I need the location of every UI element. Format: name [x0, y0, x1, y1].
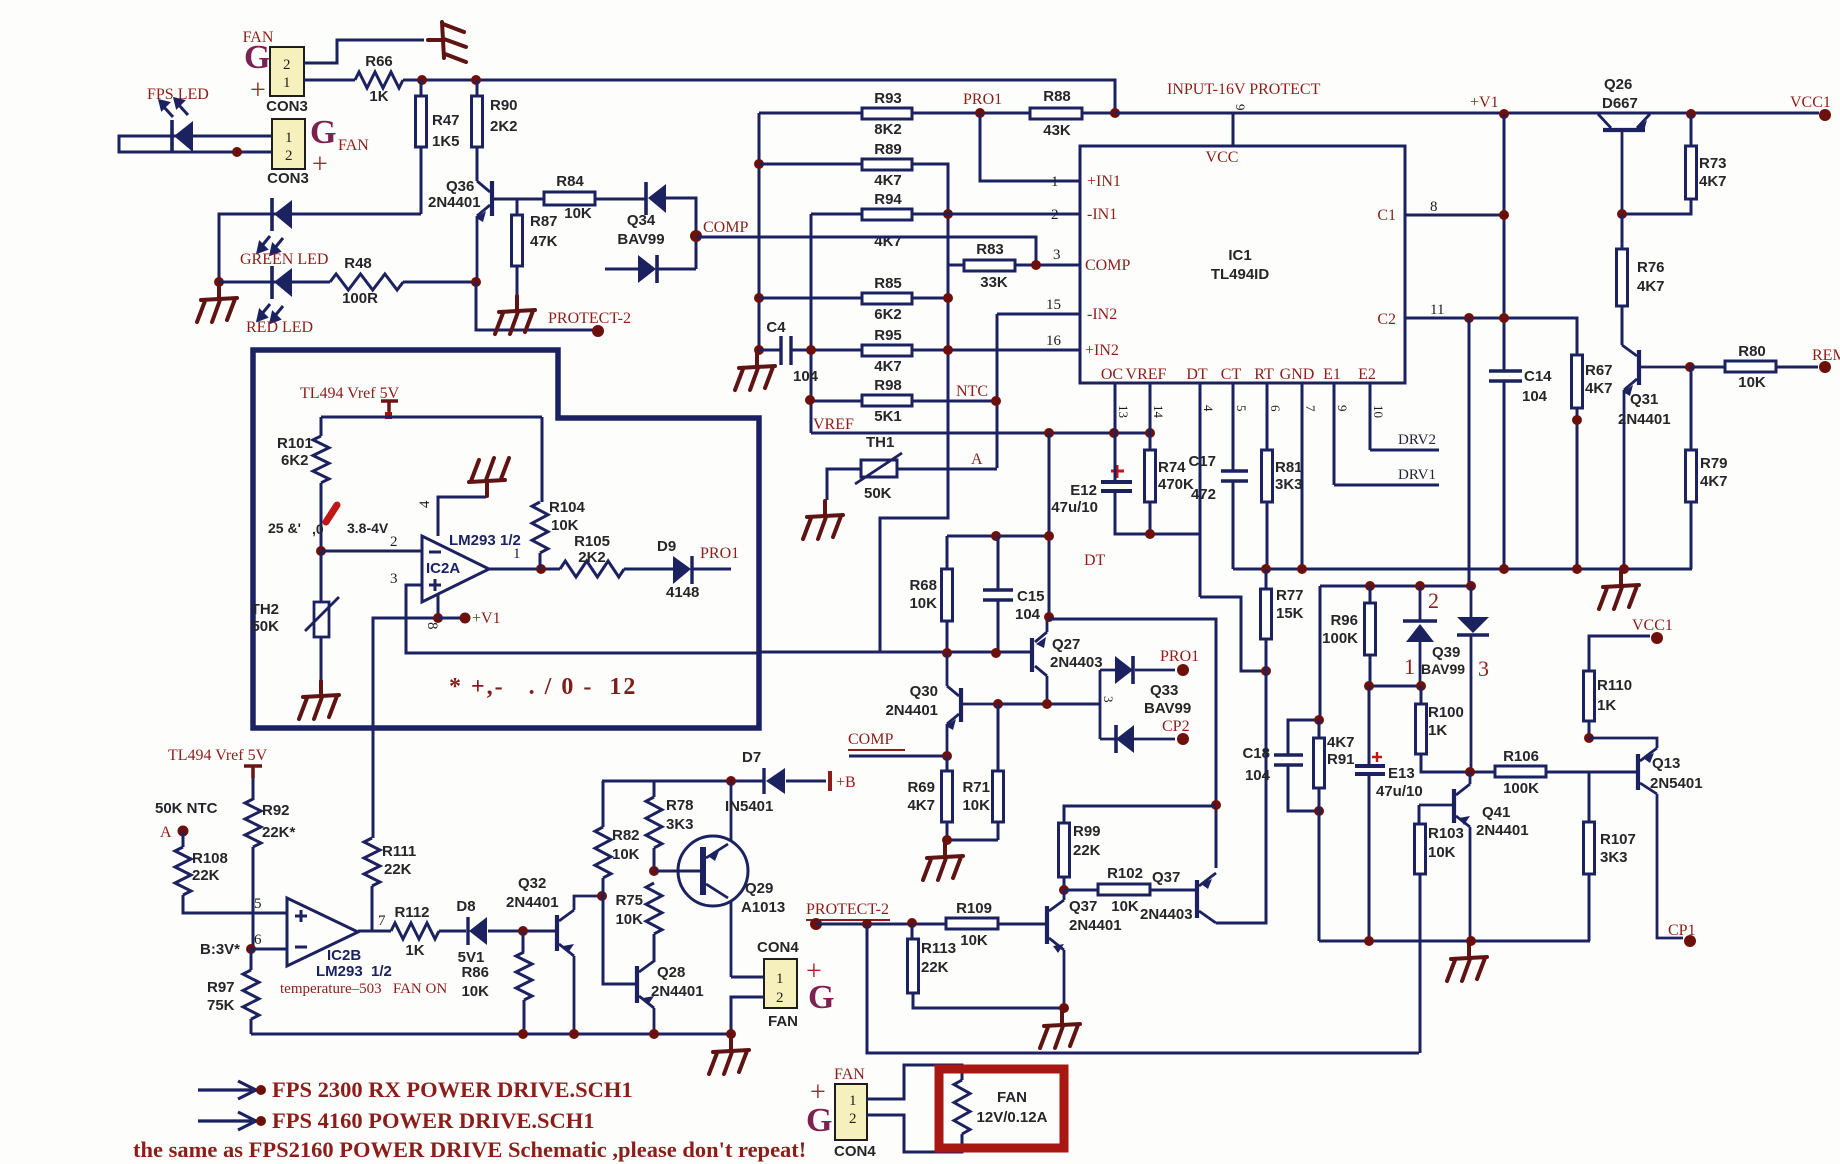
node COMP/Q30e/R69	[942, 751, 952, 761]
node rail Q32e	[569, 1029, 579, 1039]
resistor R98	[862, 395, 912, 406]
resistor R80	[1725, 361, 1776, 372]
svg-text:10K: 10K	[962, 797, 990, 814]
wire R68 leads	[946, 536, 949, 653]
wire pin VREF stub	[1149, 383, 1152, 450]
node Q31 base/R80/R79	[1685, 362, 1695, 372]
svg-text:R84: R84	[556, 173, 584, 190]
wire R74 leads	[1149, 433, 1152, 534]
svg-text:Q29: Q29	[745, 880, 773, 897]
thermistor TH2	[314, 602, 329, 637]
svg-text:100K: 100K	[1322, 630, 1358, 647]
node REM terminal	[1819, 361, 1831, 373]
resistor R47	[416, 96, 427, 147]
svg-text:E13: E13	[1388, 765, 1415, 782]
svg-text:10K: 10K	[615, 911, 643, 928]
wire VCC stub	[1232, 113, 1235, 146]
node rail652 C15	[991, 648, 1001, 658]
capacitor C17 472	[1221, 471, 1248, 481]
wire R101 leads	[320, 417, 323, 551]
wire R111 bottom	[371, 886, 374, 931]
node R100/R106/Q41c	[1465, 767, 1475, 777]
resistor R67	[1572, 355, 1583, 408]
wire C15 leads	[997, 536, 1000, 653]
node FPS LED pin2	[232, 147, 242, 157]
node rail686 E13	[1364, 681, 1374, 691]
wire pin11 line	[1405, 318, 1577, 355]
resistor R95	[862, 345, 912, 356]
transistor Q27 2N4403	[1030, 638, 1034, 672]
wire R106 to Q13 base	[1546, 771, 1636, 774]
connector CON4 (bottom)	[835, 1084, 867, 1140]
wire R112 to D8	[439, 930, 466, 933]
wire Q36 emitter to PROTECT-2	[476, 282, 596, 330]
svg-text:1K: 1K	[369, 88, 388, 105]
wire CON4 pin2	[731, 997, 764, 1034]
red pen mark	[326, 505, 337, 522]
wire D9 to PRO1	[693, 568, 731, 571]
svg-text:12V/0.12A: 12V/0.12A	[977, 1109, 1048, 1126]
wire R77 leads	[1216, 569, 1266, 923]
svg-text:R104: R104	[549, 499, 586, 516]
wire pin GND stub	[1301, 383, 1304, 569]
wire CON3 pin2 to ground	[304, 40, 424, 63]
svg-text:PROTECT-2: PROTECT-2	[548, 310, 631, 327]
transistor Q28 2N4401	[635, 966, 639, 1003]
svg-text:Q39: Q39	[1432, 644, 1460, 661]
resistor R69	[942, 771, 953, 822]
node R95 right	[943, 345, 953, 355]
resistor R92	[245, 799, 261, 847]
op-amp U2A IC2A LM293	[422, 536, 489, 602]
dual diode Q33 BAV99	[1100, 670, 1116, 739]
svg-text:A1013: A1013	[741, 899, 785, 916]
wire R113 leads	[912, 923, 1064, 1008]
svg-text:FAN: FAN	[768, 1013, 798, 1030]
svg-text:4K7: 4K7	[1700, 473, 1728, 490]
svg-text:R103: R103	[1428, 825, 1464, 842]
wire R109 to Q37 base	[998, 923, 1045, 926]
svg-text:4: 4	[417, 500, 433, 508]
wire E2 to DRV2	[1370, 449, 1439, 452]
resistor R93	[862, 108, 912, 119]
svg-text:2N4401: 2N4401	[1069, 917, 1122, 934]
resistor R99	[1059, 823, 1070, 877]
node P2 drop	[862, 919, 872, 929]
node R73 top	[1686, 109, 1696, 119]
svg-text:C17: C17	[1188, 453, 1216, 470]
node R91 bottom	[1314, 806, 1324, 816]
wire pin2 line IC2A	[321, 550, 422, 553]
connector CON4 (upper)	[764, 959, 797, 1008]
svg-text:R91: R91	[1327, 751, 1355, 768]
svg-text:Q30: Q30	[910, 683, 938, 700]
wire R110 top to VCC1	[1589, 636, 1650, 671]
svg-text:3: 3	[1478, 656, 1489, 681]
svg-text:DT: DT	[1186, 366, 1208, 383]
wire R79 leads	[1690, 367, 1693, 569]
svg-text:50K NTC: 50K NTC	[155, 800, 218, 817]
svg-text:10K: 10K	[909, 595, 937, 612]
svg-text:DRV1: DRV1	[1398, 467, 1436, 483]
svg-text:FPS 2300 RX POWER DRIVE.SCH1: FPS 2300 RX POWER DRIVE.SCH1	[272, 1077, 633, 1102]
wire R80 line	[1690, 366, 1818, 369]
diode Q34 lower (BAV99)	[638, 255, 656, 283]
svg-text:PRO1: PRO1	[963, 91, 1002, 108]
svg-text:4K7: 4K7	[1327, 734, 1355, 751]
svg-text:104: 104	[793, 368, 819, 385]
wire x1469 down to Q39 rail	[1468, 318, 1471, 586]
node R99/Q37/R102	[1059, 885, 1069, 895]
wire R87 leads	[516, 199, 519, 296]
wire bottom rail 1034	[251, 1033, 731, 1036]
node pin11/x1469	[1464, 313, 1474, 323]
svg-text:IN5401: IN5401	[725, 798, 773, 815]
resistor R71	[993, 771, 1004, 822]
resistor R81	[1262, 450, 1273, 502]
svg-text:* +,- . / 0 - 12: * +,- . / 0 - 12	[449, 674, 637, 700]
svg-text:RED LED: RED LED	[246, 319, 313, 336]
resistor R101	[313, 436, 329, 483]
wire FPS LED loop	[119, 136, 274, 152]
wire rail586	[1320, 586, 1471, 720]
svg-text:Q37: Q37	[1069, 898, 1097, 915]
svg-text:Q32: Q32	[518, 875, 546, 892]
ground (LED)	[197, 284, 237, 322]
wire Q34 lower cathode	[658, 268, 696, 271]
wire ladder chain down-jog	[880, 469, 948, 653]
svg-text:LM293 1/2: LM293 1/2	[316, 963, 392, 980]
node LED ground	[214, 277, 224, 287]
svg-text:FPS 4160 POWER DRIVE.SCH1: FPS 4160 POWER DRIVE.SCH1	[272, 1108, 595, 1133]
wire left ladder vertical	[758, 113, 761, 350]
node PROTECT-2 terminal	[592, 325, 604, 337]
node rail686 R100	[1416, 681, 1426, 691]
wire R98 line	[810, 400, 996, 403]
svg-text:CP2: CP2	[1162, 718, 1190, 735]
svg-text:R80: R80	[1738, 343, 1766, 360]
svg-text:R109: R109	[956, 900, 992, 917]
wire COMP long line	[696, 237, 1036, 265]
svg-text:5: 5	[1234, 405, 1249, 412]
svg-text:CP1: CP1	[1668, 922, 1696, 939]
wire fan pin1 route	[867, 1065, 962, 1099]
wire R94 line	[811, 213, 1080, 216]
thermistor TH1	[861, 460, 897, 477]
node rail941 Q41e	[1466, 936, 1476, 946]
wire D7 to +B	[786, 780, 826, 783]
resistor R104	[532, 502, 548, 553]
node ladder R89	[754, 159, 764, 169]
svg-text:VREF: VREF	[1126, 366, 1167, 383]
svg-text:22K: 22K	[921, 959, 949, 976]
ground (pin4 IC2A)	[469, 458, 509, 496]
node ladder R85	[754, 293, 764, 303]
svg-text:4K7: 4K7	[907, 797, 935, 814]
resistor R85	[862, 293, 912, 304]
capacitor C14 104	[1489, 371, 1522, 381]
diode D8 5V1	[466, 917, 469, 945]
resistor R112	[391, 923, 439, 939]
svg-text:C14: C14	[1524, 368, 1552, 385]
resistor R91 4K7	[1314, 738, 1325, 788]
node x1216/R99	[1211, 800, 1221, 810]
diode D7 IN5401	[762, 768, 765, 794]
capacitor E13 47u/10	[1355, 766, 1385, 774]
svg-text:R112: R112	[394, 904, 429, 921]
svg-text:LM293: LM293	[449, 532, 496, 549]
svg-text:2: 2	[849, 1111, 857, 1127]
connector CON3 (top, fan)	[270, 47, 304, 96]
svg-text:C4: C4	[766, 319, 786, 336]
svg-text:472: 472	[1191, 486, 1216, 503]
wire C18 stubs	[1288, 720, 1319, 811]
svg-text:R92: R92	[262, 802, 290, 819]
svg-text:FAN: FAN	[997, 1089, 1027, 1106]
wire rail535	[947, 535, 1049, 538]
wire PROTECT-2 line	[816, 923, 946, 926]
svg-text:R86: R86	[461, 964, 489, 981]
svg-text:1: 1	[1051, 174, 1059, 190]
svg-text:R113: R113	[921, 940, 956, 957]
wire Q29 base	[654, 870, 700, 873]
node rail652 R68	[942, 648, 952, 658]
svg-text:R88: R88	[1043, 88, 1071, 105]
svg-text:GREEN LED: GREEN LED	[240, 251, 328, 268]
diode FPS LED	[170, 120, 174, 153]
wire pin8 stub	[437, 594, 440, 618]
node R110/Q13e	[1584, 733, 1594, 743]
wire pin4 to ground	[438, 497, 486, 536]
resistor R87	[512, 215, 523, 266]
svg-text:REM: REM	[1812, 347, 1840, 364]
wire R92 bottom	[252, 847, 255, 949]
svg-text:3: 3	[390, 571, 398, 587]
wire R84 to Q34	[595, 198, 645, 201]
svg-text:104: 104	[1245, 767, 1271, 784]
svg-text:+IN1: +IN1	[1087, 173, 1121, 190]
svg-text:D667: D667	[1602, 95, 1638, 112]
svg-text:G: G	[310, 114, 336, 151]
svg-text:3: 3	[1101, 696, 1116, 703]
node rail Q28e	[649, 1029, 659, 1039]
resistor R74	[1145, 450, 1156, 502]
resistor R111	[364, 838, 380, 886]
resistor R110	[1584, 671, 1595, 721]
wire R99 bottom	[1063, 877, 1066, 890]
svg-text:33K: 33K	[980, 274, 1008, 291]
wire TH1 left to ground	[827, 469, 861, 500]
wire pin DT stub	[1199, 383, 1202, 597]
svg-text:COMP: COMP	[703, 219, 748, 236]
resistor R86	[516, 952, 532, 1000]
svg-text:R93: R93	[874, 90, 902, 107]
svg-text:E1: E1	[1323, 366, 1341, 383]
svg-text:R48: R48	[344, 255, 372, 272]
svg-text:25 &': 25 &'	[268, 520, 301, 536]
svg-text:+B: +B	[836, 774, 856, 791]
node pin8 junction	[433, 613, 443, 623]
wire pin3 route	[406, 585, 758, 653]
svg-text:R90: R90	[490, 97, 518, 114]
svg-text:OC: OC	[1101, 366, 1123, 383]
svg-text:R111: R111	[382, 843, 416, 860]
svg-text:2N4401: 2N4401	[1618, 411, 1671, 428]
wire R76 leads	[1621, 214, 1624, 345]
svg-text:R107: R107	[1600, 831, 1636, 848]
transistor Q36 2N4401	[490, 181, 494, 216]
diode D9 4148	[673, 556, 691, 584]
resistor R106	[1495, 766, 1546, 777]
wire ground rail right	[1233, 502, 1692, 569]
svg-text:+: +	[312, 149, 328, 180]
node R85 right	[943, 293, 953, 303]
node rail941 E13	[1364, 936, 1374, 946]
resistor R76	[1617, 249, 1628, 306]
wire Q34 lower anode stub	[605, 268, 638, 271]
svg-text:4K7: 4K7	[1637, 278, 1665, 295]
power symbol Vref bar (bottom)	[244, 766, 262, 778]
svg-text:2N4403: 2N4403	[1140, 906, 1193, 923]
ground (rail 1034)	[709, 1036, 749, 1074]
resistor R96	[1365, 603, 1376, 655]
wire D8 to Q32	[488, 930, 555, 933]
border thick box IC2A section	[253, 350, 759, 728]
svg-text:A: A	[160, 824, 172, 841]
svg-text:6: 6	[254, 932, 262, 948]
svg-text:1: 1	[513, 546, 521, 562]
wire R75 bottom	[653, 934, 656, 962]
wire pin1 from PRO1	[980, 113, 1080, 181]
node pin2 junction	[316, 546, 326, 556]
resistor R79	[1686, 450, 1697, 502]
connector CON3 (second, fan)	[272, 119, 305, 169]
node PRO1 mid terminal	[1177, 664, 1189, 676]
svg-text:R101: R101	[277, 435, 313, 452]
diode Q39 right (BAV99)	[1457, 617, 1489, 633]
node R67 lower	[1572, 415, 1582, 425]
svg-text:R77: R77	[1276, 587, 1304, 604]
svg-text:D8: D8	[456, 898, 475, 915]
wire pin OC stub	[1114, 383, 1117, 434]
svg-text:1K: 1K	[1428, 722, 1447, 739]
wire VCC rail to VCC1	[1115, 112, 1819, 115]
svg-text:22K: 22K	[192, 867, 220, 884]
resistor R78	[646, 797, 662, 848]
svg-text:-IN1: -IN1	[1087, 206, 1117, 223]
svg-text:2N4401: 2N4401	[506, 894, 559, 911]
wire R73 leads	[1622, 114, 1691, 214]
svg-text:R95: R95	[874, 327, 902, 344]
ground (C4)	[735, 352, 775, 390]
wire IC2B output	[358, 930, 391, 933]
svg-text:8: 8	[424, 622, 440, 630]
resistor R84	[544, 192, 595, 205]
node R69 gnd	[942, 835, 952, 845]
svg-text:10: 10	[1371, 405, 1386, 418]
node rail704 Q27c	[1042, 699, 1052, 709]
wire R86 leads	[523, 931, 524, 1034]
svg-text:3K3: 3K3	[1600, 849, 1628, 866]
svg-text:9: 9	[1233, 104, 1248, 111]
wire R96 leads	[1369, 586, 1372, 686]
node R104 bottom	[536, 564, 546, 574]
svg-text:CON3: CON3	[267, 170, 309, 187]
node rail R67	[1572, 564, 1582, 574]
svg-text:+: +	[250, 75, 266, 106]
wire R83 line	[948, 264, 1080, 267]
svg-text:10K: 10K	[1111, 898, 1139, 915]
wire R48 to Q36 emitter node	[403, 281, 476, 284]
svg-text:IC2B: IC2B	[327, 947, 361, 964]
wire CON3 pin1 to R66	[304, 79, 355, 82]
node PROTECT-2 bottom terminal	[810, 918, 822, 930]
node NTC junction	[991, 396, 1001, 406]
svg-text:C15: C15	[1017, 588, 1045, 605]
svg-text:10K: 10K	[564, 205, 592, 222]
svg-text:BAV99: BAV99	[1144, 700, 1191, 717]
wire pin RT stub	[1266, 383, 1269, 450]
wire green led line	[219, 147, 421, 282]
svg-text:+V1: +V1	[472, 610, 501, 627]
svg-text:R97: R97	[207, 979, 235, 996]
svg-text:G: G	[244, 39, 270, 76]
ground (R87)	[495, 296, 535, 334]
svg-text:FAN: FAN	[338, 137, 369, 154]
resistor R48	[330, 274, 403, 290]
wire Q30 base rail704	[998, 703, 1100, 706]
svg-text:8K2: 8K2	[874, 121, 902, 138]
resistor R108	[175, 847, 191, 895]
svg-text:16: 16	[1046, 333, 1062, 349]
node VREF/x1049	[1044, 428, 1054, 438]
wire pin E2 stub	[1369, 383, 1372, 450]
wire R102 line	[1064, 889, 1196, 892]
node R98 left	[805, 395, 815, 405]
svg-text:1K5: 1K5	[432, 133, 460, 150]
svg-text:CON3: CON3	[266, 98, 308, 115]
svg-text:2: 2	[776, 990, 784, 1006]
resistor R103	[1415, 824, 1426, 874]
svg-text:D7: D7	[742, 749, 761, 766]
node +V1	[1499, 109, 1509, 119]
node rail586 Q39b	[1466, 581, 1476, 591]
svg-text:47K: 47K	[530, 233, 558, 250]
capacitor C4	[781, 336, 791, 365]
wire R69/R71 bottoms	[947, 704, 998, 840]
node rail R81/R77	[1261, 564, 1271, 574]
node rail535 C15	[991, 531, 1001, 541]
wire Q34 top to COMP corner	[666, 198, 696, 269]
wire rail619 to x1216	[1049, 619, 1216, 868]
svg-text:A: A	[971, 451, 983, 468]
svg-text:PROTECT-2: PROTECT-2	[806, 901, 889, 918]
svg-text:100K: 100K	[1503, 780, 1539, 797]
svg-text:47u/10: 47u/10	[1051, 499, 1098, 516]
wire pin8 line	[1405, 214, 1504, 217]
svg-text:2: 2	[1051, 207, 1059, 223]
wire pin15 line	[997, 314, 1080, 468]
node rail CON4	[726, 1029, 736, 1039]
ground (Q37)	[1040, 1010, 1080, 1048]
svg-text:GND: GND	[1280, 366, 1315, 383]
wire E12 leads	[1115, 434, 1200, 534]
svg-text:9: 9	[1335, 405, 1350, 412]
resistor R109	[946, 918, 998, 929]
svg-text:C2: C2	[1377, 311, 1396, 328]
svg-text:IC2A: IC2A	[426, 560, 460, 577]
svg-text:1K: 1K	[1597, 697, 1616, 714]
